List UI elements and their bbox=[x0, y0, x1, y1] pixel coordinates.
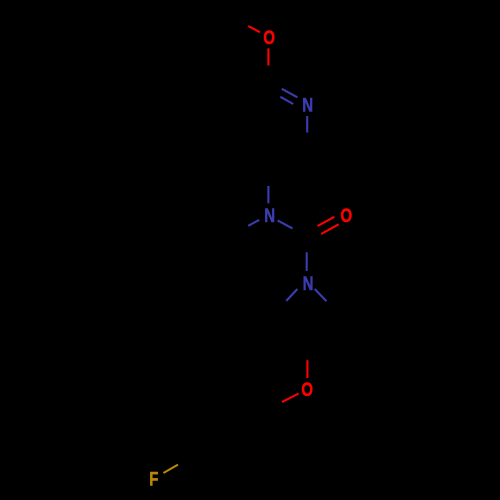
O-phenyl half bbox=[282, 394, 299, 403]
Namide-Ccarbonyl half bbox=[278, 220, 293, 228]
azetidine C-O half bbox=[306, 360, 308, 378]
C6=N1 main half bbox=[282, 89, 298, 98]
atom labels bbox=[149, 28, 352, 490]
red half-bonds (oxygen ends) bbox=[248, 26, 338, 402]
invisible carbon skeleton (black on black) bbox=[178, 15, 339, 479]
svg-text:O: O bbox=[263, 28, 275, 49]
azetidine N-CL half bbox=[286, 289, 297, 301]
svg-text:N: N bbox=[302, 95, 313, 116]
svg-text:O: O bbox=[301, 379, 313, 400]
C=O upper line half bbox=[318, 217, 335, 226]
olive half-bond (fluorine end) bbox=[163, 465, 178, 473]
svg-text:O: O bbox=[340, 206, 352, 227]
O-C6 half bbox=[267, 48, 269, 65]
blue half-bonds (nitrogen ends) bbox=[248, 89, 326, 301]
svg-text:N: N bbox=[264, 205, 275, 226]
svg-text:F: F bbox=[149, 469, 158, 490]
methyl-O half bbox=[248, 26, 260, 32]
N1-C2 half bbox=[306, 116, 308, 133]
C3-Namide half bbox=[267, 186, 269, 203]
azetidine N-CR half bbox=[315, 289, 327, 301]
svg-text:N: N bbox=[303, 273, 314, 294]
C=O lower line half bbox=[321, 224, 339, 234]
C6=N1 inner half bbox=[280, 97, 293, 104]
Ccarbonyl-Nazetidine half bbox=[306, 252, 308, 271]
Namide-CH3 half bbox=[248, 220, 259, 226]
